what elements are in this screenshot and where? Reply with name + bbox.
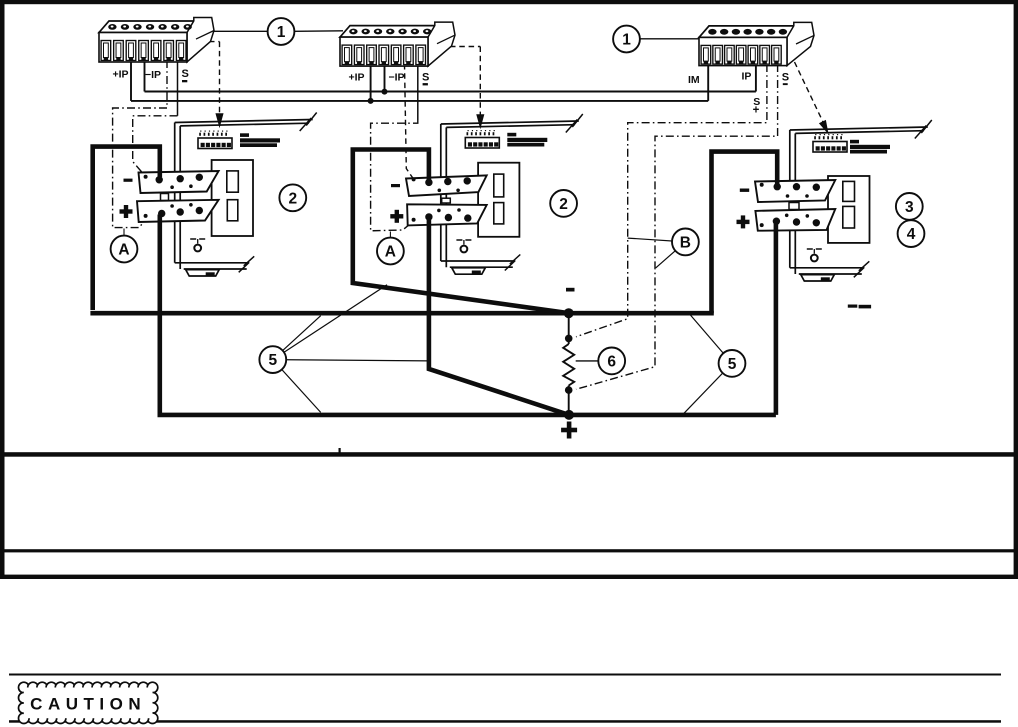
svg-text:S: S [182, 68, 189, 80]
svg-text:S: S [782, 72, 789, 84]
svg-text:−IP: −IP [389, 72, 405, 84]
svg-text:+IP: +IP [113, 69, 129, 81]
svg-text:+IP: +IP [349, 72, 365, 84]
svg-text:−IP: −IP [145, 69, 161, 81]
svg-text:3: 3 [905, 199, 914, 216]
svg-text:5: 5 [268, 352, 277, 369]
svg-text:5: 5 [728, 356, 737, 373]
svg-text:+: + [753, 105, 760, 117]
svg-text:B: B [680, 234, 691, 251]
svg-text:A: A [118, 242, 129, 259]
svg-text:IM: IM [688, 74, 700, 86]
svg-text:1: 1 [622, 32, 631, 49]
svg-text:IP: IP [742, 70, 752, 82]
svg-text:2: 2 [288, 190, 297, 207]
svg-text:6: 6 [607, 353, 616, 370]
svg-text:4: 4 [907, 226, 916, 243]
svg-text:CAUTION: CAUTION [30, 695, 146, 714]
svg-text:S: S [422, 72, 429, 84]
svg-text:1: 1 [277, 24, 286, 41]
svg-text:2: 2 [559, 196, 568, 213]
svg-text:A: A [385, 244, 396, 261]
